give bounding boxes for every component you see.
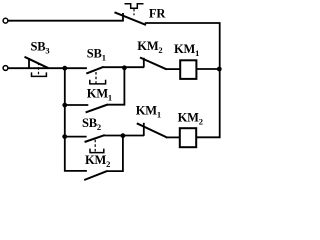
svg-text:FR: FR bbox=[149, 6, 166, 20]
